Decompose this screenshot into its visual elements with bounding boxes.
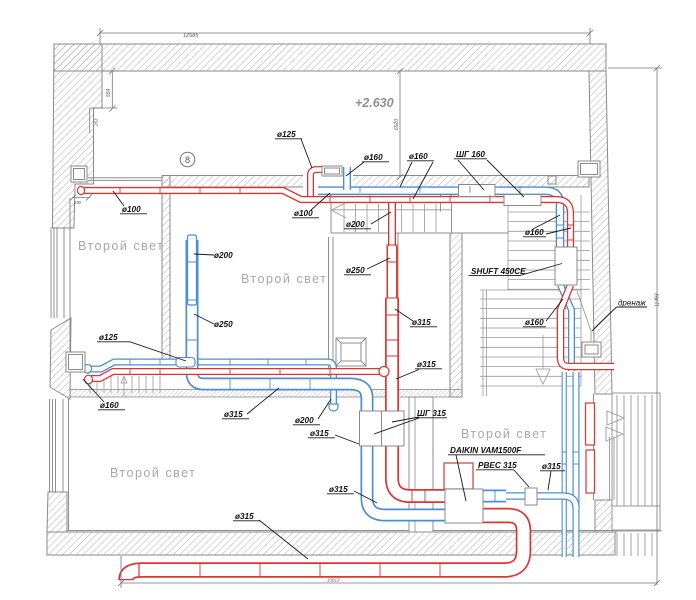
svg-text:290: 290 [73, 200, 82, 205]
svg-text:ø315: ø315 [224, 410, 243, 419]
svg-text:ШГ 160: ШГ 160 [456, 150, 485, 159]
svg-text:Второй свет: Второй свет [461, 427, 547, 441]
svg-text:8: 8 [185, 155, 190, 165]
svg-text:ШГ 315: ШГ 315 [417, 409, 446, 418]
svg-text:+2.630: +2.630 [355, 96, 394, 110]
svg-text:ø100: ø100 [294, 209, 313, 218]
svg-text:ø125: ø125 [277, 130, 296, 139]
svg-text:554: 554 [106, 88, 112, 97]
svg-text:ø250: ø250 [214, 320, 233, 329]
svg-text:ø250: ø250 [346, 266, 365, 275]
svg-text:Второй свет: Второй свет [110, 466, 196, 480]
svg-text:дренаж: дренаж [618, 299, 646, 308]
svg-text:ø160: ø160 [409, 152, 428, 161]
svg-text:6920: 6920 [394, 119, 400, 130]
svg-text:ø315: ø315 [412, 318, 431, 327]
svg-text:ø200: ø200 [346, 220, 365, 229]
svg-text:ø200: ø200 [295, 416, 314, 425]
svg-text:ø160: ø160 [100, 401, 119, 410]
svg-text:13013: 13013 [327, 578, 340, 583]
svg-text:ø315: ø315 [417, 360, 436, 369]
svg-text:11493: 11493 [655, 293, 661, 307]
svg-text:12585: 12585 [183, 33, 199, 39]
svg-text:ø315: ø315 [310, 429, 329, 438]
svg-text:DAIKIN VAM1500F: DAIKIN VAM1500F [450, 446, 522, 455]
svg-text:Второй свет: Второй свет [78, 239, 164, 253]
svg-text:РВЕС 315: РВЕС 315 [478, 461, 517, 470]
svg-text:ø200: ø200 [214, 251, 233, 260]
svg-text:ø160: ø160 [525, 228, 544, 237]
svg-text:ø315: ø315 [235, 512, 254, 521]
svg-text:ø315: ø315 [542, 462, 561, 471]
svg-text:ø100: ø100 [122, 205, 141, 214]
svg-text:ø160: ø160 [525, 318, 544, 327]
svg-text:SHUFT 450CE: SHUFT 450CE [471, 267, 526, 276]
svg-text:263: 263 [94, 118, 99, 127]
svg-text:Второй свет: Второй свет [241, 272, 327, 286]
svg-text:ø160: ø160 [364, 153, 383, 162]
svg-text:ø315: ø315 [329, 485, 348, 494]
svg-text:ø125: ø125 [99, 333, 118, 342]
